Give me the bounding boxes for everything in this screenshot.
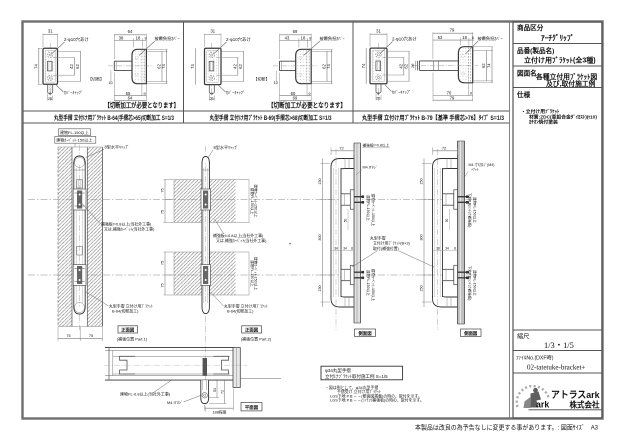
P3 bottom stem: [376, 84, 381, 93]
P3 side long stem pipe: [419, 61, 458, 71]
A3 elbow bottom: [331, 296, 354, 307]
svg-text:31: 31: [48, 29, 53, 34]
P2 front centerline: [211, 43, 213, 101]
A3 elbow top: [331, 159, 354, 170]
svg-text:建物FL-150以上: 建物FL-150以上: [473, 197, 478, 223]
svg-text:75: 75: [161, 283, 165, 287]
svg-text:【切断加工が必要となります】: 【切断加工が必要となります】: [105, 101, 180, 110]
plan end wall: [233, 348, 240, 388]
P3 dim 79 top: [432, 32, 434, 59]
A4 dim 72 top: [432, 148, 434, 156]
svg-text:ｶﾊﾞｰｷｬｯﾌﾟ: ｶﾊﾞｰｷｬｯﾌﾟ: [392, 89, 411, 96]
svg-text:150: 150: [420, 285, 424, 291]
svg-text:ark: ark: [536, 400, 549, 410]
P1 side centerline: [108, 65, 152, 67]
svg-text:64: 64: [128, 96, 133, 101]
svg-text:02-tatetuke-bracket+: 02-tatetuke-bracket+: [527, 364, 585, 372]
svg-text:74: 74: [487, 63, 492, 68]
svg-text:34: 34: [343, 247, 347, 251]
svg-text:26: 26: [410, 63, 415, 68]
svg-text:9: 9: [470, 92, 472, 96]
svg-text:75: 75: [161, 210, 165, 214]
svg-text:建物ｶｰﾍﾟｯﾄ-150以上: 建物ｶｰﾍﾟｯﾄ-150以上: [56, 137, 92, 143]
A3 bracket 1: [341, 194, 354, 205]
svg-text:69: 69: [293, 29, 298, 34]
svg-text:平面図: 平面図: [245, 404, 259, 411]
svg-text:取付(補強位置): 取付(補強位置): [373, 246, 400, 251]
A1 post centerline: [79, 145, 81, 330]
svg-text:8: 8: [145, 37, 147, 41]
center line lower: [28, 274, 478, 276]
plan rail top edge: [105, 347, 233, 349]
svg-text:建物ｶｰﾍﾟｯﾄ-150以上: 建物ｶｰﾍﾟｯﾄ-150以上: [254, 257, 259, 291]
A2 bottom cap: [202, 307, 209, 314]
center line upper: [28, 199, 478, 201]
caption strip top: [23, 110, 509, 112]
plan wall line cont: [240, 378, 281, 380]
svg-text:42: 42: [69, 64, 74, 69]
svg-text:25: 25: [376, 96, 380, 100]
svg-text:50: 50: [344, 219, 348, 223]
svg-text:M4.ITﾈｼﾞ: M4.ITﾈｼﾞ: [363, 166, 378, 170]
plan C channel left: [120, 356, 136, 374]
svg-text:18: 18: [462, 35, 467, 40]
example box: [321, 366, 403, 380]
svg-text:材質:ZDC(亜鉛合金ﾀﾞｲｶｽﾄ)(t10): 材質:ZDC(亜鉛合金ﾀﾞｲｶｽﾄ)(t10): [528, 113, 597, 120]
A1 bracket 1: [73, 189, 86, 210]
svg-text:建物ｶｰﾍﾟｯﾄ-150以上: 建物ｶｰﾍﾟｯﾄ-150以上: [254, 184, 259, 218]
A1 boxed label carpet150: [55, 136, 96, 143]
A3 dim chain left: [321, 159, 323, 308]
A1 screw detail upper-mid: [77, 180, 82, 189]
P2 dim 74 left: [195, 48, 197, 84]
P3 dim 26 stem: [415, 61, 417, 71]
P2 side stem: [280, 61, 296, 70]
P3 mid slot: [376, 61, 381, 71]
P2 dims 42/62 right: [222, 50, 245, 52]
svg-text:8: 8: [472, 36, 474, 40]
svg-text:75: 75: [161, 261, 165, 265]
P2 hole bottom: [209, 75, 214, 80]
P1 dims 9/25 bottom: [47, 94, 49, 101]
svg-text:43: 43: [285, 36, 290, 41]
svg-text:34: 34: [445, 247, 449, 251]
P3 dims 62/74 right: [473, 50, 493, 52]
A1 bottom cap: [74, 307, 85, 315]
svg-text:又は,補強ｶｰﾍﾟｯﾄ(当社外工事): 又は,補強ｶｰﾍﾟｯﾄ(当社外工事): [216, 238, 267, 243]
svg-text:79: 79: [450, 27, 455, 32]
A1 top cap: [74, 156, 85, 164]
svg-text:62: 62: [404, 63, 409, 68]
svg-text:・立付け用ﾌﾞﾗｹｯﾄ: ・立付け用ﾌﾞﾗｹｯﾄ: [521, 108, 560, 115]
P3 hole bottom: [376, 75, 381, 80]
svg-text:(補強位置 Part.2): (補強位置 Part.2): [241, 335, 272, 341]
A2 rail pipe: [201, 162, 203, 307]
svg-text:正面図: 正面図: [121, 327, 135, 334]
A2 dim 75/75 lower: [164, 252, 166, 295]
P3 front centerline: [378, 43, 380, 101]
svg-text:LGS下地 P.B ←→(ｼﾝﾁｭｳ補強板)の時の、取付を示: LGS下地 P.B ←→(ｼﾝﾁｭｳ補強板)の時の、取付を示す。: [330, 398, 424, 403]
A2 bracket 1: [201, 189, 210, 210]
svg-text:9: 9: [211, 92, 213, 96]
A4 wall: [458, 141, 465, 324]
svg-text:2-φ10穴あけ: 2-φ10穴あけ: [392, 36, 417, 43]
A4 rail vertical: [432, 168, 434, 297]
A2 post centerline: [205, 146, 207, 412]
svg-text:62: 62: [238, 64, 243, 69]
plan bracket: [201, 380, 209, 404]
svg-text:25: 25: [209, 97, 213, 101]
svg-text:75: 75: [89, 334, 93, 338]
P3 side centerline: [412, 65, 478, 67]
svg-text:53: 53: [438, 35, 443, 40]
plan C channel right: [214, 356, 229, 374]
svg-text:縮尺: 縮尺: [517, 333, 529, 341]
P3 dims 53/18/8: [459, 38, 461, 46]
svg-text:25: 25: [48, 97, 52, 101]
logo figure: [533, 388, 538, 393]
svg-text:74: 74: [326, 64, 331, 69]
A2 bracket 2: [201, 265, 210, 286]
svg-text:75: 75: [161, 188, 165, 192]
svg-text:建物FL-150以上: 建物FL-150以上: [60, 129, 89, 135]
svg-text:品番(製品名): 品番(製品名): [517, 46, 554, 55]
P2 dims 43/18/8: [298, 38, 300, 47]
plan dim 188: [204, 405, 206, 411]
svg-text:10: 10: [274, 81, 278, 85]
svg-text:38: 38: [119, 36, 124, 41]
svg-text:62: 62: [75, 64, 80, 69]
A1 boxed label FL150: [59, 129, 91, 136]
svg-text:74: 74: [33, 64, 38, 69]
svg-text:8: 8: [351, 247, 353, 251]
svg-text:10: 10: [108, 81, 112, 85]
svg-text:31: 31: [376, 28, 381, 33]
svg-text:79: 79: [450, 95, 455, 100]
P1 side view D-body: [132, 49, 146, 83]
svg-text:被覆負担ｶﾊﾞｰ: 被覆負担ｶﾊﾞｰ: [155, 35, 180, 42]
P1 dim 31 top: [42, 34, 44, 48]
A4 bracket 1: [443, 194, 454, 205]
P2 dims 62/74 right: [312, 50, 333, 52]
A1 bracket 2: [73, 265, 86, 286]
A1 dim 75 75 bottom: [57, 327, 59, 341]
svg-text:【切断】: 【切断】: [254, 76, 270, 82]
plan dims 53/72: [216, 380, 218, 397]
svg-text:建物FL-150以上: 建物FL-150以上: [366, 270, 371, 296]
svg-text:ｶﾊﾞｰｷｬｯﾌﾟ: ｶﾊﾞｰｷｬｯﾌﾟ: [64, 89, 83, 96]
svg-text:株式会社: 株式会社: [570, 400, 600, 410]
svg-text:18: 18: [136, 36, 141, 41]
svg-text:補強板t=0.8以上: 補強板t=0.8以上: [363, 143, 390, 148]
svg-text:及び,取付施工例: 及び,取付施工例: [546, 79, 596, 88]
svg-text:150: 150: [318, 285, 322, 291]
svg-text:9: 9: [144, 92, 146, 96]
A1 wall hatch left: [58, 147, 72, 327]
svg-text:正面図: 正面図: [245, 327, 259, 334]
svg-text:9: 9: [377, 92, 379, 96]
A1 screw detail lower-mid: [77, 247, 82, 256]
svg-text:74: 74: [361, 63, 366, 68]
svg-text:本製品は改良の為予告なしに変更する事があります。: 図面ｻｲ: 本製品は改良の為予告なしに変更する事があります。: 図面ｻｲｽﾞ A3: [415, 422, 598, 431]
P2 mid slot: [209, 61, 214, 71]
A3 rail vertical: [330, 168, 332, 297]
P3 dims 42/62 right: [388, 50, 410, 52]
svg-text:被覆負担ｶﾊﾞｰ: 被覆負担ｶﾊﾞｰ: [478, 35, 503, 42]
A4 elbow bottom: [433, 296, 458, 307]
svg-text:2-φ10穴あけ: 2-φ10穴あけ: [226, 36, 251, 43]
svg-text:74: 74: [190, 64, 195, 69]
A2 hatch lower left: [174, 252, 202, 295]
caption strip bottom: [23, 122, 509, 124]
A3 caption box 側面図: [355, 329, 376, 336]
svg-text:300: 300: [318, 234, 322, 240]
svg-text:ｶﾊﾞｰｷｬｯﾌﾟ: ｶﾊﾞｰｷｬｯﾌﾟ: [226, 89, 245, 96]
A1 wall boundary lines: [57, 147, 59, 327]
P1 dims 62/74 right: [147, 50, 168, 52]
drawing area right border: [509, 22, 511, 418]
svg-text:又は,補強ｶｰﾍﾟｯﾄ(当社外工事): 又は,補強ｶｰﾍﾟｯﾄ(当社外工事): [104, 227, 155, 232]
P3 dims 9/25 bottom: [375, 93, 377, 100]
P1 hole bottom: [47, 75, 52, 80]
A2 hatch lower right: [210, 252, 236, 295]
svg-text:18: 18: [301, 36, 306, 41]
svg-text:72: 72: [220, 390, 224, 394]
svg-text:側面図: 側面図: [463, 330, 478, 337]
P1 dim 74 left: [38, 48, 40, 84]
svg-text:側面図: 側面図: [357, 330, 372, 337]
svg-text:34: 34: [334, 247, 338, 251]
logo gear arc: [517, 386, 549, 407]
svg-text:8: 8: [454, 247, 456, 251]
svg-text:各種立付用ﾌﾞﾗｹｯﾄ図: 各種立付用ﾌﾞﾗｹｯﾄ図: [535, 72, 597, 81]
svg-text:【切断】: 【切断】: [88, 76, 104, 82]
svg-text:丸型手摺 立付け用ﾌﾞﾗｹｯﾄ B-64(手摺芯>65)切断: 丸型手摺 立付け用ﾌﾞﾗｹｯﾄ B-64(手摺芯>65)切断加工 S=1/3: [53, 114, 174, 122]
plan left end: [108, 348, 110, 381]
A3 pipe centerline: [335, 149, 337, 330]
svg-text:図面名: 図面名: [517, 69, 537, 78]
svg-text:建物ｶｰﾍﾟｯﾄ-150以上: 建物ｶｰﾍﾟｯﾄ-150以上: [371, 269, 376, 302]
svg-text:丸型手摺 立付け用ﾌﾞﾗｹｯﾄ B-79【基準 手摺芯>76: 丸型手摺 立付け用ﾌﾞﾗｹｯﾄ B-79【基準 手摺芯>76】ﾀｲﾌﾟ S=1/…: [361, 114, 504, 122]
P2 bottom stem: [209, 85, 214, 94]
P2 front body B-69: [205, 48, 222, 84]
panel divider 2/3: [352, 22, 354, 123]
plan caption box 平面図: [241, 403, 262, 411]
svg-text:8型水平ｷｬｯﾌﾟ: 8型水平ｷｬｯﾌﾟ: [214, 144, 239, 150]
P3 side D-body: [458, 47, 472, 83]
svg-text:74: 74: [161, 64, 166, 69]
P1 front view centerline: [49, 43, 51, 101]
svg-text:38: 38: [436, 247, 440, 251]
A4 pipe centerline: [437, 149, 439, 330]
plan band centerline: [104, 364, 247, 366]
P2 hole top: [209, 52, 214, 57]
svg-text:下地P.B(ｼﾝﾁｭｳ補強板): 下地P.B(ｼﾝﾁｭｳ補強板): [468, 266, 473, 301]
A3 wall: [354, 143, 361, 323]
svg-text:丸型手摺 立付け用ﾌﾞﾗｹｯﾄ B-69(手摺芯>68)切断: 丸型手摺 立付け用ﾌﾞﾗｹｯﾄ B-69(手摺芯>68)切断加工 S=1/3: [209, 114, 332, 122]
svg-text:立付け用ﾌﾞﾗｹｯﾄ(全3種): 立付け用ﾌﾞﾗｹｯﾄ(全3種): [524, 56, 596, 65]
svg-text:B-64(切断加工): B-64(切断加工): [112, 309, 139, 314]
P3 front body B-79: [370, 48, 387, 84]
P2 dims 9/25 bottom: [208, 94, 210, 101]
A2 top cap: [202, 157, 209, 164]
svg-text:B-64(切断加工): B-64(切断加工): [227, 309, 254, 314]
svg-text:ｱｰﾁｸﾞﾘｯﾌﾟ: ｱｰﾁｸﾞﾘｯﾌﾟ: [541, 34, 574, 43]
svg-text:64: 64: [128, 29, 133, 34]
title block border: [513, 22, 602, 418]
A4 bracket 2: [443, 269, 454, 280]
A1 rail pipe: [73, 162, 75, 307]
A2 hatch upper right: [210, 180, 236, 223]
P2 dim 31 top: [204, 34, 206, 48]
svg-text:8: 8: [309, 37, 311, 41]
svg-text:被覆負担ｶﾊﾞｰ: 被覆負担ｶﾊﾞｰ: [320, 35, 345, 42]
svg-text:商品区分: 商品区分: [517, 23, 544, 32]
svg-text:*: *: [289, 243, 291, 249]
svg-text:建物FL-150以上: 建物FL-150以上: [366, 195, 371, 221]
svg-text:2-φ10穴あけ: 2-φ10穴あけ: [64, 36, 89, 43]
svg-text:150: 150: [420, 178, 424, 184]
svg-text:建物ｶｰﾍﾟｯﾄ-150以上: 建物ｶｰﾍﾟｯﾄ-150以上: [371, 194, 376, 227]
svg-text:M4.寸切ﾈｼﾞ(M4): M4.寸切ﾈｼﾞ(M4): [469, 162, 495, 167]
P1 bottom stem: [48, 84, 53, 93]
svg-text:9: 9: [49, 92, 51, 96]
svg-text:ｶﾁｵﾝ焼付塗装: ｶﾁｵﾝ焼付塗装: [529, 119, 558, 126]
A1 wall hatch right: [87, 147, 102, 327]
P1 dims 42/62 right: [58, 50, 81, 52]
A2 caption box 正面図: [242, 326, 262, 333]
P3 hole top: [376, 52, 381, 57]
svg-text:150: 150: [318, 178, 322, 184]
P1 mid slot: [48, 61, 53, 71]
svg-text:アトラスark: アトラスark: [551, 390, 600, 401]
svg-text:53: 53: [213, 388, 217, 392]
svg-text:ﾌｧｲﾙNo.(DXF時): ﾌｧｲﾙNo.(DXF時): [516, 355, 554, 362]
svg-text:188程度: 188程度: [213, 410, 227, 415]
svg-text:+ﾅｯﾄ: +ﾅｯﾄ: [471, 168, 479, 172]
svg-text:仕様: 仕様: [516, 90, 531, 99]
P1 hole top: [47, 52, 52, 57]
svg-text:立付けﾌﾞﾗｹｯﾄ取付施工例 S=1/5: 立付けﾌﾞﾗｹｯﾄ取付施工例 S=1/5: [325, 373, 388, 380]
P3 dims 70/9/79 bottom: [432, 73, 434, 102]
svg-text:9: 9: [308, 92, 310, 96]
svg-text:50: 50: [445, 219, 449, 223]
svg-text:【切断加工が必要となります】: 【切断加工が必要となります】: [268, 101, 346, 110]
P1 dims 55/9/64 bottom: [113, 73, 115, 102]
svg-text:62: 62: [481, 63, 486, 68]
A3 bracket 2: [341, 269, 354, 280]
A2 hatch upper left: [174, 180, 202, 223]
A1 caption box 正面図: [118, 326, 138, 333]
svg-text:300: 300: [420, 234, 424, 240]
svg-text:72: 72: [442, 145, 446, 150]
P3 dim 74 left: [365, 48, 367, 84]
svg-text:72: 72: [339, 145, 343, 150]
svg-text:8型水平ｷｬｯﾌﾟ: 8型水平ｷｬｯﾌﾟ: [105, 143, 130, 149]
P3 dim 31 top: [369, 33, 371, 47]
P2 dim 69 top: [279, 34, 281, 59]
P2 dims 60/9/69 bottom: [279, 73, 281, 102]
svg-text:M4 ITﾈｼﾞ: M4 ITﾈｼﾞ: [167, 400, 183, 405]
plan rail inner lines: [113, 355, 230, 357]
logo block: [517, 386, 602, 410]
A4 elbow top: [433, 159, 458, 170]
svg-text:建物FL-150以上: 建物FL-150以上: [473, 270, 478, 296]
svg-text:建物FL-0.8以上(当社外工事): 建物FL-0.8以上(当社外工事): [120, 390, 171, 396]
svg-text:31: 31: [210, 29, 215, 34]
svg-text:42: 42: [232, 64, 237, 69]
svg-text:下地P.B(ｼﾝﾁｭｳ補強板): 下地P.B(ｼﾝﾁｭｳ補強板): [468, 193, 473, 228]
svg-text:1/3・1/5: 1/3・1/5: [544, 341, 574, 350]
svg-text:69: 69: [293, 96, 298, 101]
A4 caption box 側面図: [461, 329, 482, 336]
panel divider 1/2: [183, 22, 185, 123]
svg-text:75: 75: [66, 334, 70, 338]
P2 side centerline: [273, 65, 317, 67]
plan rail bottom edge: [105, 375, 233, 377]
P1 side stem: [114, 61, 132, 70]
P1 dims 38/18/8: [133, 38, 135, 47]
P1 front body B-64: [43, 48, 58, 84]
A4 dim chain left: [423, 159, 425, 308]
plan bracket bolts: [203, 358, 207, 376]
P2 side D-body: [296, 49, 312, 83]
svg-text:(補強位置 Part.1): (補強位置 Part.1): [117, 335, 148, 341]
A3 dim 72 top: [330, 148, 332, 156]
A2 dim 75/75 upper: [164, 180, 166, 223]
P1 dim 64 top: [113, 34, 115, 59]
